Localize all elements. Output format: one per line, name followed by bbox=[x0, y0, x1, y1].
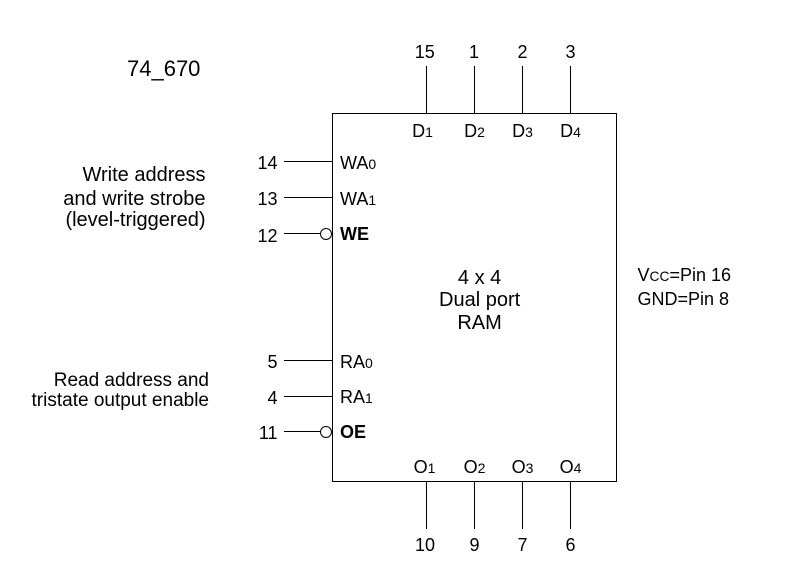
wire: pin 13 (WA1) bbox=[284, 197, 332, 198]
pin number 2 bbox=[517, 43, 527, 61]
pin number 6 bbox=[565, 536, 575, 554]
pin number 10 bbox=[415, 536, 435, 554]
pin number 13 bbox=[257, 190, 277, 208]
annotation: write address note line 1 bbox=[82, 165, 205, 185]
power note Vcc bbox=[638, 266, 732, 284]
device description line 1 bbox=[458, 268, 501, 288]
pin number 1 bbox=[469, 43, 479, 61]
pin label WE bbox=[340, 225, 369, 243]
pin label RA1 bbox=[340, 388, 373, 406]
pin number 11 bbox=[259, 424, 278, 442]
wire: pin 5 (RA0) bbox=[284, 360, 332, 361]
wire: pin 7 (O3) bottom bbox=[522, 482, 523, 529]
wire: pin 6 (O4) bottom bbox=[570, 482, 571, 529]
annotation: write address note line 2 bbox=[63, 189, 205, 209]
wire: pin 9 (O2) bottom bbox=[474, 482, 475, 529]
device description line 2 bbox=[439, 290, 520, 310]
annotation: read address note line 1 bbox=[54, 371, 209, 390]
pin number 9 bbox=[469, 536, 479, 554]
pin number 3 bbox=[565, 43, 575, 61]
wire: pin 14 (WA0) bbox=[284, 161, 332, 162]
wire: pin 12 (WE) bbox=[284, 233, 320, 234]
title 74_670 bbox=[127, 58, 200, 80]
pin label O2 bbox=[464, 458, 486, 476]
annotation: write address note line 3 bbox=[65, 210, 205, 230]
pin label WA1 bbox=[340, 190, 376, 208]
pin number 4 bbox=[267, 389, 277, 407]
pin number 15 bbox=[415, 43, 435, 61]
wire: pin 15 (D1) top bbox=[426, 66, 427, 113]
pin label O1 bbox=[414, 458, 436, 476]
wire: pin 4 (RA1) bbox=[284, 396, 332, 397]
IC body U1 (74x670 4x4 dual-port RAM) bbox=[332, 113, 617, 482]
bubble: WE active-low bbox=[320, 228, 332, 240]
power note GND bbox=[638, 290, 730, 308]
pin number 7 bbox=[517, 536, 527, 554]
pin label D1 bbox=[412, 122, 433, 140]
pin label O4 bbox=[560, 458, 582, 476]
pin number 5 bbox=[267, 353, 277, 371]
annotation: read address note line 2 bbox=[32, 391, 209, 410]
wire: pin 3 (D4) top bbox=[570, 66, 571, 113]
bubble: OE active-low bbox=[320, 426, 332, 438]
pin number 14 bbox=[257, 154, 277, 172]
pin label RA0 bbox=[340, 353, 373, 371]
wire: pin 11 (OE) bbox=[284, 431, 320, 432]
pin number 12 bbox=[257, 227, 277, 245]
wire: pin 10 (O1) bottom bbox=[426, 482, 427, 529]
device description line 3 bbox=[457, 313, 501, 333]
wire: pin 2 (D3) top bbox=[522, 66, 523, 113]
pin label D4 bbox=[560, 122, 581, 140]
pin label O3 bbox=[512, 458, 534, 476]
pin label WA0 bbox=[340, 154, 376, 172]
wire: pin 1 (D2) top bbox=[474, 66, 475, 113]
pin label D3 bbox=[512, 122, 533, 140]
pin label OE bbox=[340, 423, 366, 441]
pin label D2 bbox=[464, 122, 485, 140]
